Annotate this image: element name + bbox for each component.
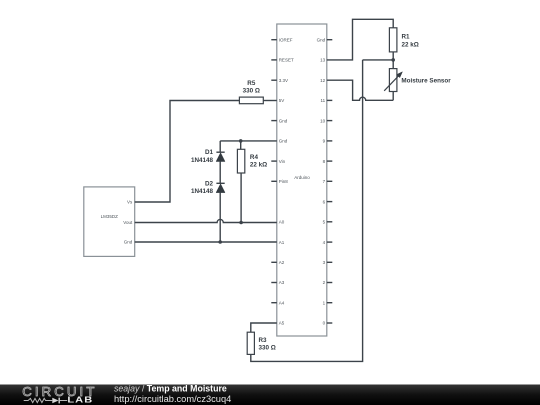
wire Gnd to D1 bbox=[219, 141, 221, 152]
svg-text:D1: D1 bbox=[205, 149, 214, 156]
svg-text:5V: 5V bbox=[279, 98, 285, 103]
svg-text:1N4148: 1N4148 bbox=[191, 157, 214, 164]
pin 2 bbox=[323, 280, 333, 285]
wire R1 bottom to sensor top bbox=[392, 52, 394, 69]
wire D1 to D2 bbox=[219, 161, 221, 183]
pin 0 bbox=[323, 321, 333, 326]
svg-text:IOREF: IOREF bbox=[279, 37, 293, 42]
pin 8 bbox=[323, 159, 333, 164]
wire A5 to R3 top bbox=[251, 323, 277, 332]
pin 3 bbox=[323, 260, 333, 265]
pin 3.3V bbox=[271, 78, 288, 83]
pin RESET bbox=[271, 58, 294, 63]
node junction D2/A1 bbox=[218, 240, 222, 244]
svg-text:R5: R5 bbox=[247, 80, 256, 87]
footer bar bbox=[0, 385, 540, 405]
diode D2 1N4148 bbox=[191, 180, 225, 195]
svg-text:A4: A4 bbox=[279, 300, 285, 305]
pin 12 bbox=[320, 78, 326, 83]
IC U2 LM35DZ temperature sensor bbox=[84, 187, 135, 257]
svg-text:A0: A0 bbox=[279, 220, 285, 225]
svg-text:R3: R3 bbox=[259, 337, 268, 344]
wire LM35DZ Vout to A0 with hop bbox=[135, 219, 277, 222]
wire pin 13 to R1 top bbox=[327, 19, 393, 60]
pin Gnd right bbox=[317, 37, 333, 42]
pin 9 bbox=[323, 139, 333, 144]
svg-text:A2: A2 bbox=[279, 260, 285, 265]
svg-text:Vout: Vout bbox=[123, 220, 133, 225]
pin Gnd left 1 bbox=[271, 118, 287, 123]
resistor R1 bbox=[389, 28, 418, 52]
svg-text:330 Ω: 330 Ω bbox=[243, 88, 260, 95]
wire 5V pin to R5 bbox=[263, 100, 277, 102]
svg-text:22 kΩ: 22 kΩ bbox=[250, 162, 267, 169]
svg-text:Moisture Sensor: Moisture Sensor bbox=[401, 78, 451, 85]
pin 5V bbox=[279, 98, 285, 103]
svg-text:10: 10 bbox=[320, 118, 326, 123]
svg-text:R4: R4 bbox=[250, 154, 259, 161]
node junction Gnd/R4 bbox=[239, 139, 243, 143]
logo resistor-diode symbol bbox=[24, 398, 67, 404]
pin A0 bbox=[279, 220, 285, 225]
wire Gnd pin to diode/R4 branch bbox=[220, 140, 277, 142]
pin A4 bbox=[271, 300, 284, 305]
svg-text:A1: A1 bbox=[279, 240, 285, 245]
node junction R1/sensor bbox=[391, 58, 395, 62]
wire pin 12 to sensor bottom with hop bbox=[327, 80, 393, 100]
wire R4 bottom lead bbox=[240, 173, 242, 223]
resistor R5 bbox=[239, 80, 263, 104]
pin 7 bbox=[323, 179, 333, 184]
svg-text:11: 11 bbox=[321, 98, 326, 103]
pin A3 bbox=[271, 280, 284, 285]
svg-text:1N4148: 1N4148 bbox=[191, 188, 214, 195]
svg-text:22 kΩ: 22 kΩ bbox=[402, 41, 419, 48]
svg-text:Vs: Vs bbox=[127, 200, 133, 205]
pin Pin8 bbox=[271, 179, 288, 184]
svg-text:12: 12 bbox=[320, 78, 326, 83]
pin 11 bbox=[321, 98, 333, 103]
wire junction to long vertical bbox=[363, 59, 394, 61]
pin 10 bbox=[320, 118, 332, 123]
pin A1 bbox=[279, 240, 285, 245]
pin 1 bbox=[323, 300, 333, 305]
svg-text:LM35DZ: LM35DZ bbox=[101, 214, 119, 219]
svg-text:13: 13 bbox=[320, 58, 326, 63]
svg-text:Arduino: Arduino bbox=[294, 175, 310, 180]
resistor R4 bbox=[237, 149, 267, 173]
svg-text:3.3V: 3.3V bbox=[279, 78, 288, 83]
node junction R4/Vout bbox=[239, 221, 243, 225]
wire long vertical to R3 bbox=[251, 60, 363, 362]
pin A5 bbox=[279, 321, 285, 326]
svg-text:R1: R1 bbox=[402, 34, 411, 41]
svg-text:A3: A3 bbox=[279, 280, 285, 285]
pin IOREF bbox=[271, 37, 292, 42]
pin Gnd left 2 bbox=[279, 139, 288, 144]
svg-text:330 Ω: 330 Ω bbox=[259, 345, 276, 352]
svg-text:LAB: LAB bbox=[67, 396, 93, 405]
variable resistor Moisture Sensor bbox=[384, 69, 451, 92]
resistor R3 bbox=[247, 332, 276, 354]
svg-text:D2: D2 bbox=[205, 180, 214, 187]
svg-text:Pin8: Pin8 bbox=[279, 179, 289, 184]
pin 5 bbox=[323, 220, 333, 225]
svg-text:A5: A5 bbox=[279, 321, 285, 326]
pin Vin bbox=[271, 159, 285, 164]
wire LM35DZ Gnd to A1 bbox=[135, 241, 277, 243]
svg-text:http://circuitlab.com/cz3cuq4: http://circuitlab.com/cz3cuq4 bbox=[114, 394, 231, 404]
pin A2 bbox=[271, 260, 284, 265]
svg-text:Gnd: Gnd bbox=[124, 240, 133, 245]
wire sensor bottom lead bbox=[392, 92, 394, 101]
wire R5 to LM35DZ Vs bbox=[135, 101, 240, 203]
svg-text:Gnd: Gnd bbox=[317, 37, 326, 42]
diode D1 1N4148 bbox=[191, 149, 225, 164]
pin 13 bbox=[320, 58, 326, 63]
svg-text:RESET: RESET bbox=[279, 58, 294, 63]
wire R4 top lead bbox=[240, 141, 242, 149]
svg-text:Vin: Vin bbox=[279, 159, 286, 164]
svg-text:seajay / Temp and Moisture: seajay / Temp and Moisture bbox=[114, 383, 227, 393]
IC U1 Arduino bbox=[277, 24, 327, 336]
svg-text:Gnd: Gnd bbox=[279, 118, 288, 123]
svg-text:Gnd: Gnd bbox=[279, 139, 288, 144]
pin 4 bbox=[323, 240, 333, 245]
wire D2 down to A1 net bbox=[219, 192, 221, 242]
pin 6 bbox=[323, 199, 333, 204]
